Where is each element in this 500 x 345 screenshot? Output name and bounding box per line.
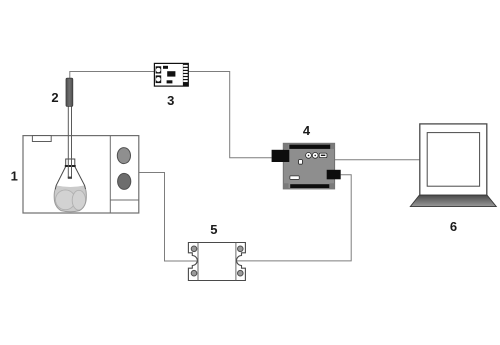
probe tube tip cap [68, 177, 72, 179]
load cell 5 screw hole bottom-right [238, 270, 244, 276]
stir sphere left [56, 190, 76, 210]
wire module 3 to arduino 4 USB [188, 72, 271, 158]
load cell 5 screw hole top-right [238, 246, 244, 252]
wire stirrer 1 to load cell 5 [139, 173, 197, 262]
arduino 4 USB connector [272, 150, 290, 162]
stir sphere right [72, 190, 85, 210]
probe 2 body [66, 78, 73, 106]
sensor module 3 board [154, 63, 188, 86]
svg-text:4: 4 [303, 123, 311, 138]
load cell 5 right block line [235, 243, 237, 281]
label 1 [11, 169, 18, 184]
module 3 capacitor top [163, 66, 168, 69]
wire probe 2 to module 3 [70, 72, 155, 80]
laptop 6 monitor [420, 124, 487, 195]
label 5 [210, 222, 217, 237]
load cell 5 body [188, 243, 245, 281]
wire arduino 4 jack to load cell 5 [237, 175, 351, 261]
stirrer knob bottom [118, 173, 131, 189]
arduino 4 top pin header [289, 145, 330, 149]
svg-text:1: 1 [11, 169, 18, 184]
flask body lower outline [54, 189, 86, 212]
arduino 4 corner standoffs [283, 143, 334, 189]
load cell 5 screw hole top-left [191, 246, 197, 252]
module 3 resistor bottom [167, 80, 173, 83]
stirrer knob top [117, 148, 130, 164]
wire arduino 4 to laptop 6 [335, 159, 420, 161]
module 3 pin header [183, 63, 188, 86]
label 6 [450, 219, 457, 234]
arduino 4 chip label [290, 176, 299, 180]
stirrer panel divider [109, 136, 111, 213]
flask neck collar [65, 159, 76, 166]
arduino 4 board [283, 143, 334, 189]
arduino 4 reset button [299, 160, 303, 165]
arduino 4 capacitor right [312, 153, 318, 159]
svg-text:5: 5 [210, 222, 217, 237]
load cell 5 left block line [197, 243, 199, 281]
arduino 4 capacitor left [306, 153, 312, 159]
stirrer panel shelf line [110, 199, 139, 201]
stirrer unit 1 enclosure [23, 136, 139, 213]
laptop 6 screen [427, 133, 479, 187]
svg-text:6: 6 [450, 219, 457, 234]
load cell 5 screw hole bottom-left [191, 270, 197, 276]
arduino 4 bottom pin header [290, 184, 329, 188]
module 3 IC chip [167, 71, 175, 76]
svg-text:2: 2 [51, 90, 58, 105]
module 3 terminal block lower [156, 75, 162, 83]
probe glass tube [68, 104, 71, 178]
laptop 6 keyboard base [410, 195, 496, 206]
arduino 4 power jack [327, 170, 341, 180]
module 3 terminal block upper [156, 66, 162, 73]
arduino 4 ICSP header [319, 153, 327, 158]
label 4 [303, 123, 311, 138]
label 2 [51, 90, 58, 105]
label 3 [167, 93, 174, 108]
flask cone outline [55, 167, 85, 190]
flask liquid [54, 185, 86, 211]
stirrer display window [32, 136, 51, 142]
svg-text:3: 3 [167, 93, 174, 108]
